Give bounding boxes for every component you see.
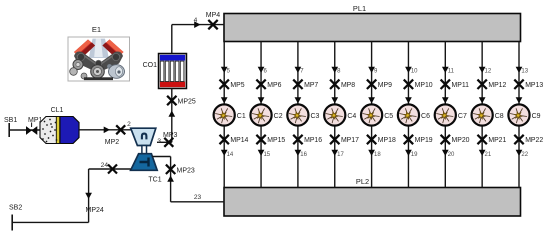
valve MP21	[477, 135, 506, 144]
svg-text:15: 15	[263, 152, 270, 158]
svg-text:MP9: MP9	[378, 82, 392, 89]
stream arrow 4	[194, 17, 201, 28]
wire C1 to PL2	[223, 127, 225, 188]
valve MP17	[330, 135, 359, 144]
svg-text:MP20: MP20	[452, 137, 470, 144]
stream arrow 12	[479, 67, 492, 75]
svg-text:2: 2	[127, 121, 131, 128]
combustor C8	[472, 104, 504, 125]
combustor C1	[214, 104, 246, 125]
svg-text:MP22: MP22	[525, 137, 543, 144]
stream arrow 8	[331, 67, 341, 75]
arrow into C6	[405, 97, 412, 103]
stream arrow 16	[295, 150, 308, 158]
arrow into C1	[221, 97, 228, 103]
valve MP20	[441, 135, 470, 144]
svg-text:MP6: MP6	[267, 82, 281, 89]
valve MP23	[166, 165, 195, 175]
svg-text:22: 22	[521, 152, 528, 158]
stream arrow into turbine	[167, 176, 174, 182]
stream arrow 22	[516, 150, 529, 158]
valve MP24	[86, 162, 118, 214]
combustor C5	[361, 104, 393, 125]
stream arrow 20	[442, 150, 455, 158]
svg-text:C3: C3	[311, 113, 320, 120]
svg-text:SB2: SB2	[9, 205, 22, 212]
svg-text:MP7: MP7	[304, 82, 318, 89]
valve MP19	[404, 135, 433, 144]
svg-text:MP2: MP2	[105, 139, 120, 146]
wire C8 to PL2	[481, 127, 483, 188]
stream arrow 13	[516, 67, 529, 75]
wire C6 to PL2	[407, 127, 409, 188]
arrow into C2	[258, 97, 265, 103]
wire PL2 to turbine	[152, 157, 224, 202]
valve MP12	[477, 80, 506, 90]
valve MP2	[105, 125, 125, 146]
combustor C6	[398, 104, 430, 125]
stream arrow 15	[258, 150, 271, 158]
svg-text:MP12: MP12	[488, 82, 506, 89]
wire C5 to PL2	[371, 127, 373, 188]
combustor C3	[287, 104, 319, 125]
wire CO1 to PL1	[172, 25, 225, 55]
stream arrow 24 down	[85, 193, 92, 199]
svg-text:C1: C1	[237, 113, 246, 120]
valve MP11	[441, 80, 470, 90]
filter CL1	[40, 107, 79, 144]
wire CL1 to compressor	[79, 129, 133, 131]
wire PL1 to C8	[481, 42, 483, 105]
stream arrow 2	[104, 121, 131, 133]
svg-text:CL1: CL1	[51, 107, 64, 114]
valve MP8	[330, 80, 355, 90]
valve MP13	[514, 80, 543, 90]
arrow into C7	[442, 97, 449, 103]
plenum PL1	[224, 4, 521, 42]
svg-text:12: 12	[485, 69, 492, 75]
wire PL1 to C7	[444, 42, 446, 105]
svg-text:10: 10	[411, 69, 418, 75]
arrow into C9	[516, 97, 523, 103]
shaft TC1	[142, 146, 147, 154]
wire C2 to PL2	[260, 127, 262, 188]
valve MP1	[26, 117, 43, 135]
svg-text:PL2: PL2	[356, 177, 369, 186]
svg-text:C4: C4	[347, 113, 356, 120]
valve MP25	[167, 96, 196, 106]
svg-text:3: 3	[157, 138, 161, 145]
valve MP10	[404, 80, 433, 90]
wire C9 to PL2	[518, 127, 520, 188]
svg-text:E1: E1	[92, 25, 101, 34]
svg-text:TC1: TC1	[148, 177, 161, 184]
stream arrow 18	[368, 150, 381, 158]
arrow into C4	[331, 97, 338, 103]
svg-text:16: 16	[300, 152, 307, 158]
valve MP18	[367, 135, 396, 144]
valve MP14	[220, 135, 249, 144]
svg-text:MP25: MP25	[178, 99, 196, 106]
svg-text:18: 18	[374, 152, 381, 158]
combustor C7	[435, 104, 467, 125]
svg-text:MP11: MP11	[452, 82, 470, 89]
svg-text:C5: C5	[384, 113, 393, 120]
valve MP15	[256, 135, 285, 144]
svg-text:PL1: PL1	[353, 4, 366, 13]
stream arrow 14	[221, 150, 234, 158]
stream arrow 7	[295, 67, 305, 75]
valve MP22	[514, 135, 543, 144]
svg-text:20: 20	[448, 152, 455, 158]
combustor C9	[508, 104, 540, 125]
wire C4 to PL2	[334, 127, 336, 188]
wire C3 to PL2	[297, 127, 299, 188]
wire PL1 to C2	[260, 42, 262, 105]
svg-text:11: 11	[448, 69, 455, 75]
svg-text:C7: C7	[458, 113, 467, 120]
svg-text:MP16: MP16	[304, 137, 322, 144]
combustor C2	[250, 104, 282, 125]
svg-text:MP14: MP14	[230, 137, 248, 144]
valve MP16	[293, 135, 322, 144]
cooler CO1	[143, 54, 187, 89]
valve MP4	[206, 12, 221, 29]
svg-text:MP10: MP10	[415, 82, 433, 89]
wire turbine to SB2	[12, 169, 131, 222]
svg-text:17: 17	[337, 152, 344, 158]
stream arrow 6	[258, 67, 268, 75]
compressor TC1 (cold side)	[131, 128, 156, 145]
wire PL1 to C6	[407, 42, 409, 105]
engine E1	[68, 25, 130, 81]
valve MP5	[220, 80, 245, 90]
stream arrow up into CO1	[168, 111, 175, 117]
stream arrow 10	[405, 67, 418, 75]
svg-text:23: 23	[194, 194, 202, 201]
svg-text:C2: C2	[274, 113, 283, 120]
valve MP3	[157, 132, 177, 147]
wire PL1 to C1	[223, 42, 225, 105]
turbine TC1 (hot side)	[131, 154, 162, 184]
svg-text:21: 21	[485, 152, 492, 158]
svg-text:MP15: MP15	[267, 137, 285, 144]
wire C7 to PL2	[444, 127, 446, 188]
arrow into C3	[295, 97, 302, 103]
svg-text:19: 19	[411, 152, 418, 158]
combustor C4	[324, 104, 356, 125]
svg-text:MP18: MP18	[378, 137, 396, 144]
svg-text:MP21: MP21	[488, 137, 506, 144]
svg-text:MP4: MP4	[206, 12, 221, 19]
svg-text:14: 14	[227, 152, 234, 158]
stream arrow 17	[331, 150, 344, 158]
svg-text:MP13: MP13	[525, 82, 543, 89]
svg-text:24: 24	[101, 162, 109, 169]
svg-text:MP23: MP23	[177, 167, 195, 174]
boundary SB1	[4, 117, 17, 137]
stream arrow 5	[221, 67, 231, 75]
svg-text:SB1: SB1	[4, 117, 17, 124]
wire compressor to CO1	[157, 89, 172, 143]
svg-text:C8: C8	[495, 113, 504, 120]
stream arrow 21	[479, 150, 492, 158]
boundary SB2	[9, 205, 22, 231]
wire PL1 to C4	[334, 42, 336, 105]
valve MP7	[293, 80, 318, 90]
svg-text:C6: C6	[421, 113, 430, 120]
wire PL1 to C3	[297, 42, 299, 105]
stream arrow 11	[442, 67, 455, 75]
svg-text:C9: C9	[532, 113, 541, 120]
svg-text:4: 4	[194, 17, 198, 24]
valve MP6	[256, 80, 281, 90]
svg-text:MP8: MP8	[341, 82, 355, 89]
stream arrow 9	[368, 67, 378, 75]
wire PL1 to C9	[518, 42, 520, 105]
plenum PL2	[224, 177, 521, 216]
svg-text:MP17: MP17	[341, 137, 359, 144]
svg-text:MP5: MP5	[230, 82, 244, 89]
arrow into C5	[368, 97, 375, 103]
arrow into C8	[479, 97, 486, 103]
valve MP9	[367, 80, 392, 90]
stream arrow 19	[405, 150, 418, 158]
wire PL1 to C5	[371, 42, 373, 105]
svg-text:13: 13	[521, 69, 528, 75]
svg-text:MP3: MP3	[163, 132, 178, 139]
svg-text:MP24: MP24	[86, 207, 104, 214]
wire SB1 to CL1	[9, 129, 40, 131]
svg-text:MP19: MP19	[415, 137, 433, 144]
svg-text:CO1: CO1	[143, 62, 158, 69]
